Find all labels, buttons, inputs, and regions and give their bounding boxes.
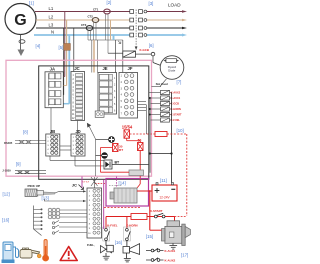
svg-text:CT3: CT3 [81,23,87,27]
svg-text:BT: BT [115,161,121,165]
svg-text:[3]: [3] [149,1,154,6]
svg-text:[10]: [10] [177,128,184,133]
svg-text:CT2: CT2 [88,14,94,18]
svg-text:K-AUX1: K-AUX1 [171,97,181,100]
svg-text:K-AUX2: K-AUX2 [165,259,176,263]
svg-text:RS485: RS485 [4,141,13,145]
svg-text:J-1939: J-1939 [2,169,11,173]
svg-text:JA: JA [50,66,55,71]
svg-text:CT1: CT1 [93,7,99,11]
svg-text:[4]: [4] [36,44,41,49]
svg-text:LOAD: LOAD [168,3,181,8]
svg-text:12-24V: 12-24V [159,195,170,199]
svg-text:[7]: [7] [177,80,182,85]
svg-text:K-FUEL: K-FUEL [107,223,118,227]
svg-text:K-START: K-START [171,114,182,117]
svg-text:FUEL,: FUEL, [87,243,95,247]
svg-text:L3: L3 [49,22,54,27]
svg-text:[2]: [2] [107,0,112,5]
svg-text:K-HORN: K-HORN [171,108,181,111]
svg-text:K-FUEL: K-FUEL [171,119,181,122]
svg-text:JB: JB [50,129,55,134]
svg-text:[8]: [8] [23,130,28,135]
svg-text:[6]: [6] [149,43,154,48]
svg-text:[12]: [12] [3,192,10,197]
svg-text:K-START: K-START [150,209,163,213]
svg-text:[15]: [15] [146,234,153,239]
svg-text:JE: JE [102,66,107,71]
svg-text:[13]: [13] [42,195,49,200]
svg-text:K-F K-H: K-F K-H [83,181,90,183]
svg-text:G: G [14,12,26,29]
svg-text:L2: L2 [49,14,54,19]
svg-text:K-GCB: K-GCB [140,48,149,52]
svg-text:Not Used: Not Used [156,82,168,86]
svg-text:[16]: [16] [2,218,9,223]
svg-text:[1]: [1] [29,1,34,6]
svg-text:15/54: 15/54 [122,125,133,130]
svg-text:K-GCB: K-GCB [171,103,179,106]
svg-text:[14]: [14] [119,181,126,186]
svg-text:L1: L1 [49,6,54,11]
svg-text:N: N [51,30,54,35]
svg-text:[16]: [16] [115,240,122,245]
svg-text:BT: BT [119,148,123,152]
svg-text:[17]: [17] [181,252,188,257]
svg-text:K-AUX2: K-AUX2 [171,92,181,95]
svg-text:JF: JF [128,66,133,71]
svg-text:JD: JD [75,129,80,134]
svg-text:K-AUX1: K-AUX1 [165,249,176,253]
svg-text:K-HORN: K-HORN [126,223,137,227]
svg-text:[5]: [5] [59,45,64,50]
svg-text:Diode: Diode [168,68,176,72]
svg-text:[11]: [11] [160,178,167,183]
svg-text:JC: JC [74,66,79,71]
svg-text:PICK UP: PICK UP [28,184,41,188]
svg-text:[9]: [9] [16,162,21,167]
svg-text:JC: JC [72,183,77,188]
